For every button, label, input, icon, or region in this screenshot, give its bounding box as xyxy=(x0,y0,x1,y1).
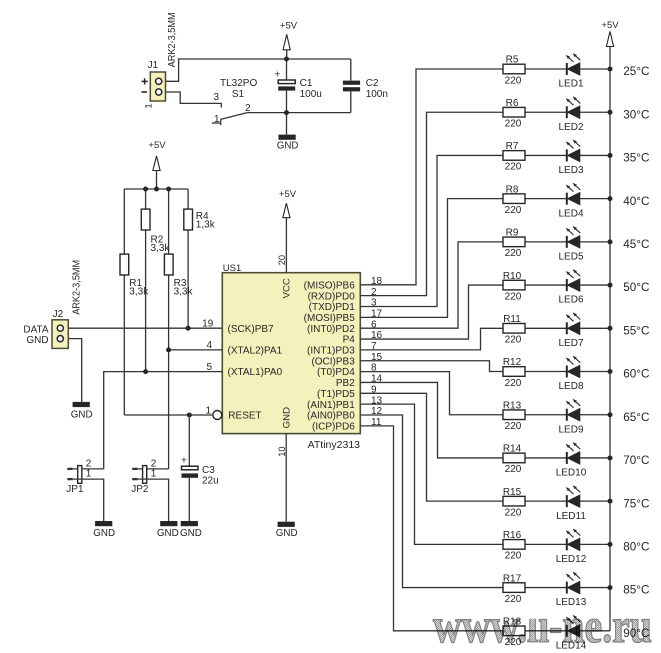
svg-text:(T1)PD5: (T1)PD5 xyxy=(317,389,355,400)
svg-text:220: 220 xyxy=(505,335,522,346)
svg-text:3,3k: 3,3k xyxy=(151,243,171,254)
svg-text:65°C: 65°C xyxy=(623,411,649,424)
svg-text:GND: GND xyxy=(157,528,179,539)
svg-text:R15: R15 xyxy=(503,487,522,498)
svg-text:(TXD)PD1: (TXD)PD1 xyxy=(309,302,356,313)
svg-text:LED11: LED11 xyxy=(556,511,586,522)
svg-text:R13: R13 xyxy=(503,400,522,411)
svg-text:LED8: LED8 xyxy=(558,381,583,392)
svg-text:(XTAL2)PA1: (XTAL2)PA1 xyxy=(228,346,283,357)
svg-text:+5V: +5V xyxy=(601,20,619,31)
svg-text:8: 8 xyxy=(371,363,377,374)
svg-text:GND: GND xyxy=(277,140,299,151)
svg-text:9: 9 xyxy=(371,384,377,395)
svg-text:14: 14 xyxy=(371,374,383,385)
svg-text:2: 2 xyxy=(245,103,251,114)
svg-text:35°C: 35°C xyxy=(623,152,649,165)
svg-text:(OCI)PB3: (OCI)PB3 xyxy=(311,356,355,367)
svg-text:R10: R10 xyxy=(503,271,522,282)
svg-text:17: 17 xyxy=(371,308,383,319)
svg-text:220: 220 xyxy=(505,464,522,475)
svg-text:LED9: LED9 xyxy=(558,424,583,435)
svg-text:LED6: LED6 xyxy=(558,295,583,306)
svg-text:LED4: LED4 xyxy=(558,208,583,219)
svg-text:US1: US1 xyxy=(223,263,241,274)
svg-text:20: 20 xyxy=(277,255,287,265)
svg-text:ATtiny2313: ATtiny2313 xyxy=(308,439,360,451)
svg-text:16: 16 xyxy=(371,330,383,341)
svg-text:(INT1)PD3: (INT1)PD3 xyxy=(307,346,355,357)
svg-text:220: 220 xyxy=(505,594,522,605)
svg-text:(AIN1)PB1: (AIN1)PB1 xyxy=(307,400,355,411)
svg-text:RESET: RESET xyxy=(228,411,261,422)
svg-text:13: 13 xyxy=(371,395,383,406)
svg-text:7: 7 xyxy=(371,341,377,352)
svg-text:80°C: 80°C xyxy=(623,540,649,553)
svg-text:1: 1 xyxy=(214,114,220,125)
svg-text:GND: GND xyxy=(276,528,298,539)
svg-text:GND: GND xyxy=(282,407,293,428)
svg-text:(SCK)PB7: (SCK)PB7 xyxy=(228,324,275,335)
svg-text:ARK2-3,5MM: ARK2-3,5MM xyxy=(167,12,178,67)
svg-text:10: 10 xyxy=(277,446,287,456)
svg-text:12: 12 xyxy=(371,406,383,417)
svg-text:LED7: LED7 xyxy=(558,338,583,349)
svg-text:TL32PO: TL32PO xyxy=(220,78,257,89)
svg-text:3: 3 xyxy=(213,92,219,103)
svg-text:VCC: VCC xyxy=(282,278,293,298)
svg-text:+5V: +5V xyxy=(280,20,298,31)
svg-text:LED12: LED12 xyxy=(556,554,587,565)
svg-text:R16: R16 xyxy=(503,530,522,541)
svg-text:+5V: +5V xyxy=(279,189,297,200)
svg-text:GND: GND xyxy=(180,528,202,539)
svg-text:(AIN0)PB0: (AIN0)PB0 xyxy=(307,411,355,422)
svg-text:GND: GND xyxy=(93,528,115,539)
svg-text:JP2: JP2 xyxy=(131,484,149,495)
svg-text:R11: R11 xyxy=(503,314,521,325)
svg-text:220: 220 xyxy=(505,421,522,432)
svg-text:DATA: DATA xyxy=(23,325,49,336)
svg-text:J2: J2 xyxy=(53,309,64,320)
svg-text:(XTAL1)PA0: (XTAL1)PA0 xyxy=(228,367,283,378)
svg-text:50°C: 50°C xyxy=(623,281,649,294)
svg-text:(RXD)PD0: (RXD)PD0 xyxy=(308,291,356,302)
svg-text:(MISO)PB6: (MISO)PB6 xyxy=(304,280,356,291)
svg-text:(ICP)PD6: (ICP)PD6 xyxy=(312,421,355,432)
svg-text:15: 15 xyxy=(371,352,383,363)
svg-text:45°C: 45°C xyxy=(623,238,649,251)
svg-text:220: 220 xyxy=(505,378,522,389)
svg-text:P4: P4 xyxy=(343,335,356,346)
svg-text:70°C: 70°C xyxy=(623,454,649,467)
svg-text:LED5: LED5 xyxy=(558,251,583,262)
svg-text:220: 220 xyxy=(505,507,522,518)
svg-text:19: 19 xyxy=(202,318,214,329)
svg-text:220: 220 xyxy=(505,205,522,216)
svg-text:220: 220 xyxy=(505,551,522,562)
svg-text:JP1: JP1 xyxy=(66,484,84,495)
svg-text:11: 11 xyxy=(371,417,382,428)
svg-text:6: 6 xyxy=(371,319,377,330)
svg-text:22u: 22u xyxy=(202,475,219,486)
svg-text:R9: R9 xyxy=(506,228,519,239)
svg-text:LED2: LED2 xyxy=(558,122,583,133)
svg-text:75°C: 75°C xyxy=(623,497,649,510)
svg-text:LED1: LED1 xyxy=(558,79,583,90)
svg-text:GND: GND xyxy=(71,410,93,421)
svg-text:3: 3 xyxy=(371,298,377,309)
svg-text:+: + xyxy=(181,455,187,467)
svg-text:J1: J1 xyxy=(148,60,159,71)
svg-text:1,3k: 1,3k xyxy=(196,220,216,231)
svg-text:LED3: LED3 xyxy=(558,165,583,176)
svg-text:R7: R7 xyxy=(506,141,519,152)
svg-text:220: 220 xyxy=(505,75,522,86)
svg-text:1: 1 xyxy=(151,469,157,480)
svg-text:C1: C1 xyxy=(300,78,313,89)
svg-text:(MOSI)PB5: (MOSI)PB5 xyxy=(304,313,356,324)
svg-text:3,3k: 3,3k xyxy=(129,287,149,298)
svg-text:S1: S1 xyxy=(232,89,245,100)
svg-text:60°C: 60°C xyxy=(623,368,649,381)
svg-text:LED10: LED10 xyxy=(556,468,587,479)
svg-text:55°C: 55°C xyxy=(623,324,649,337)
svg-text:LED13: LED13 xyxy=(556,597,587,608)
svg-text:18: 18 xyxy=(371,276,383,287)
svg-text:100n: 100n xyxy=(366,89,388,100)
svg-text:3,3k: 3,3k xyxy=(174,287,194,298)
svg-text:220: 220 xyxy=(505,162,522,173)
svg-text:25°C: 25°C xyxy=(623,65,649,78)
svg-text:GND: GND xyxy=(26,335,48,346)
svg-text:1: 1 xyxy=(86,469,92,480)
svg-text:(INT0)PD2: (INT0)PD2 xyxy=(307,324,355,335)
svg-text:100u: 100u xyxy=(300,89,322,100)
svg-text:40°C: 40°C xyxy=(623,195,649,208)
svg-text:+: + xyxy=(274,68,280,80)
svg-text:2: 2 xyxy=(371,287,377,298)
svg-text:220: 220 xyxy=(505,248,522,259)
svg-text:(T0)PD4: (T0)PD4 xyxy=(317,367,355,378)
svg-text:30°C: 30°C xyxy=(623,108,649,121)
svg-text:85°C: 85°C xyxy=(623,584,649,597)
svg-text:R5: R5 xyxy=(506,55,519,66)
svg-text:+5V: +5V xyxy=(148,140,166,151)
svg-text:R17: R17 xyxy=(503,573,522,584)
svg-text:220: 220 xyxy=(505,119,522,130)
svg-text:220: 220 xyxy=(505,291,522,302)
svg-text:R8: R8 xyxy=(506,184,519,195)
svg-text:R6: R6 xyxy=(506,98,519,109)
svg-text:1: 1 xyxy=(144,103,155,108)
svg-text:C2: C2 xyxy=(366,78,379,89)
svg-text:ARK2-3,5MM: ARK2-3,5MM xyxy=(71,260,82,315)
svg-text:R14: R14 xyxy=(503,444,522,455)
svg-text:PB2: PB2 xyxy=(336,378,355,389)
svg-text:R12: R12 xyxy=(503,357,522,368)
